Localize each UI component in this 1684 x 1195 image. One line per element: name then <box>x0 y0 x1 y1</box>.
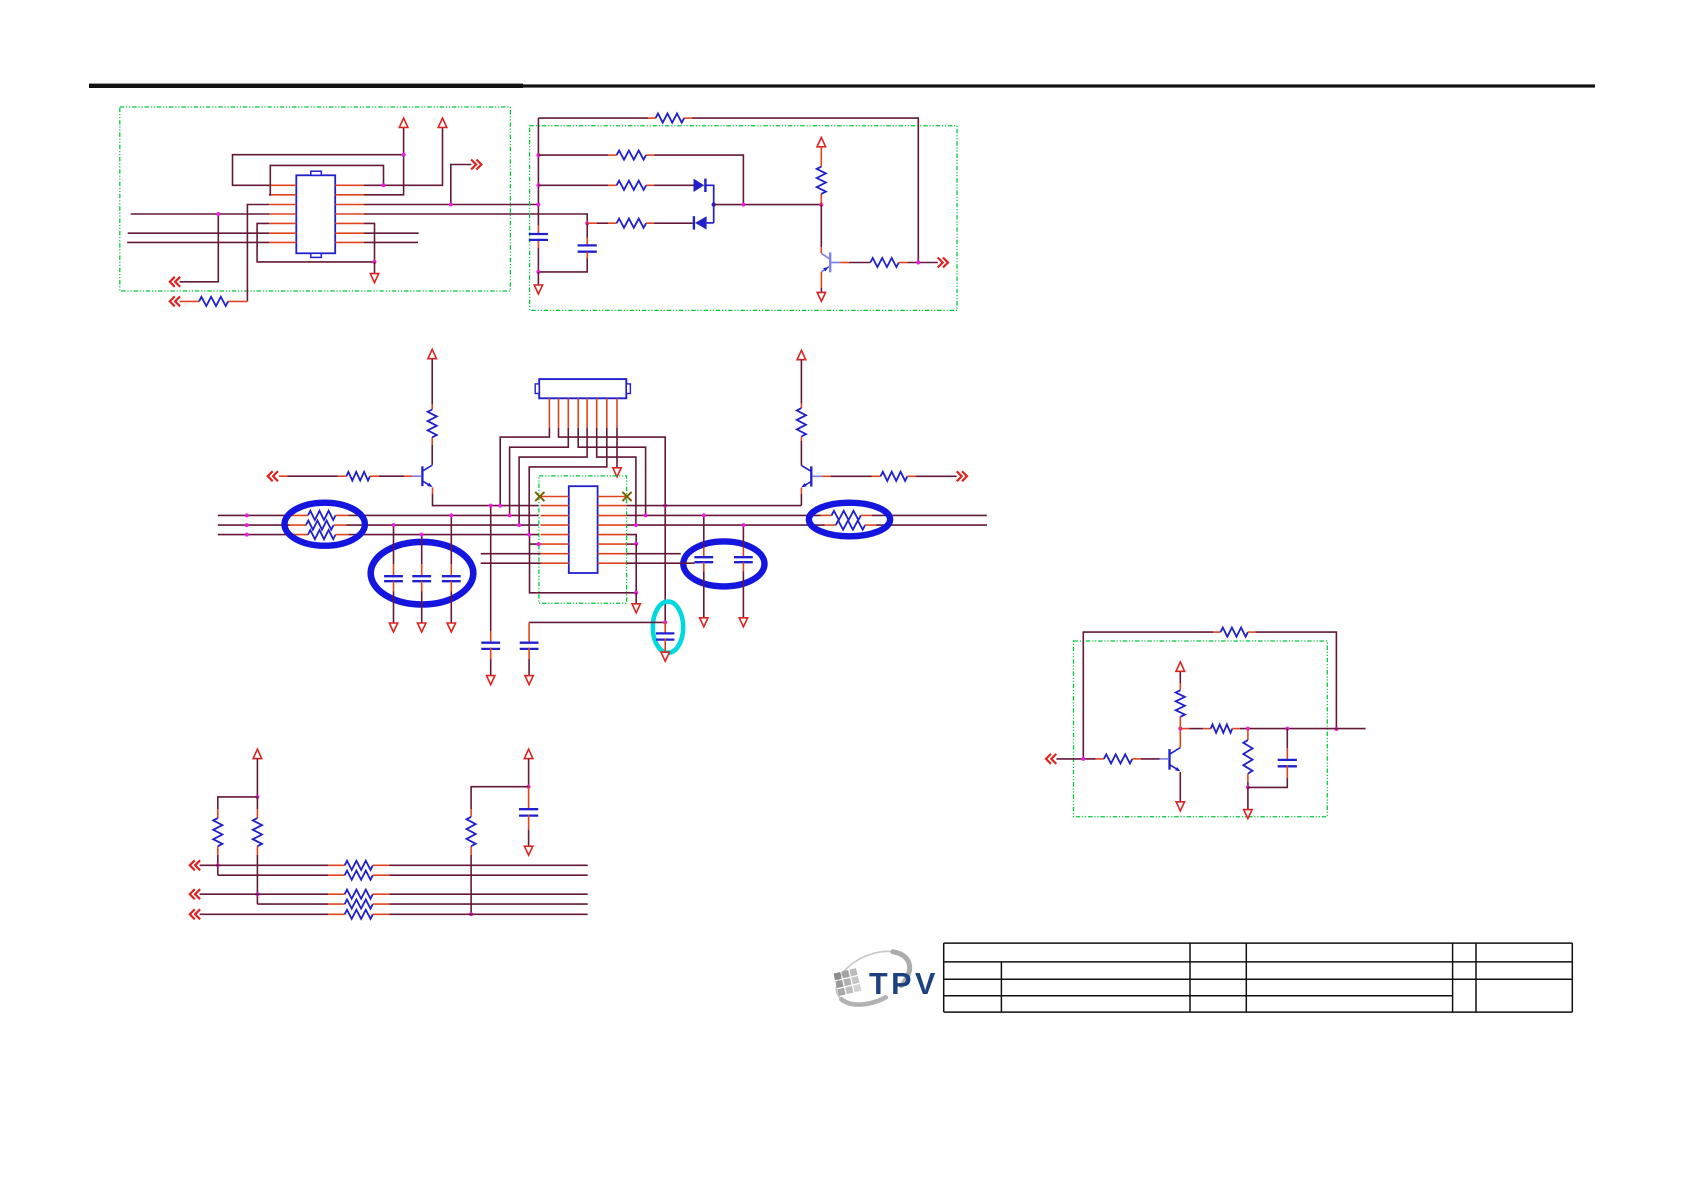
wire VCC7 stem <box>528 759 530 787</box>
resistor R20 <box>345 890 373 899</box>
capacitor C1 leads <box>537 226 539 234</box>
power arrow VCC6 <box>253 749 262 758</box>
wire row7 right stub <box>364 241 418 243</box>
junction pullups <box>255 795 259 799</box>
wire line L5 <box>200 913 328 915</box>
wire line L3 <box>200 893 328 895</box>
resistor R13 <box>832 511 861 520</box>
wire VCC6 stem <box>256 759 258 797</box>
junction output-R27 <box>1246 727 1250 731</box>
capacitor C1 <box>529 233 548 235</box>
resistor R2 leads <box>228 300 247 302</box>
wire branch to R17 <box>471 787 528 809</box>
wire row6 right stub <box>364 232 419 234</box>
resistor R2 <box>199 297 228 306</box>
ground C2 <box>389 623 397 632</box>
wire row5 bottom loop <box>257 223 374 262</box>
junction bus2-capA <box>392 523 396 527</box>
IC U2 <box>569 486 598 573</box>
wire line L4 <box>257 903 328 905</box>
ground C7 <box>661 652 669 661</box>
resistor R24 <box>1104 754 1132 763</box>
output port chevron OUT1 <box>471 160 481 170</box>
IC U2 left pins <box>541 497 569 564</box>
resistor R14 <box>836 521 865 530</box>
resistor R16 leads <box>256 809 258 818</box>
wire D1 cathode link <box>707 185 714 223</box>
ground C8 <box>700 618 708 627</box>
wire U2 row6 left bend <box>530 535 637 593</box>
resistor R22 <box>345 910 373 919</box>
capacitor C3 <box>412 575 431 577</box>
wire feedback right <box>692 118 918 263</box>
input port chevron IN-Q2 <box>268 471 278 481</box>
wire output row <box>1180 728 1189 730</box>
junction feedback-base <box>916 261 920 265</box>
junction rail-row3 <box>536 203 540 207</box>
IC U2 right pins <box>598 497 627 564</box>
wire branch to R15 <box>218 797 258 809</box>
wire cap 4 to ground <box>450 581 452 591</box>
wire row3 riser to output port <box>451 165 472 205</box>
wire row7 left stub <box>127 241 269 243</box>
resistor R25 leads <box>1179 717 1181 729</box>
junction bus3-capB <box>420 533 424 537</box>
wire U2 row8 right stub <box>627 562 695 564</box>
junction gnd line <box>634 591 638 595</box>
wire J1 pin2 fanout <box>559 428 666 623</box>
junction pin7-bus <box>527 533 531 537</box>
capacitor C10 leads <box>528 787 530 810</box>
wire U2 row8 left stub <box>481 562 541 564</box>
wire bus line 3 <box>218 534 292 536</box>
junction row4-drop <box>216 212 220 216</box>
wire J1 pin5 fanout <box>519 428 587 525</box>
junction center-Rpullup <box>819 203 823 207</box>
transistor Q4 <box>1170 748 1181 772</box>
title block table <box>944 943 1573 1012</box>
ground C3 <box>418 623 426 632</box>
wire R16 to L3/L4 <box>256 855 258 904</box>
wire diode center line <box>714 204 822 206</box>
resistor R3 leads <box>648 117 656 119</box>
junction rail-row2 <box>536 183 540 187</box>
ground C4 <box>447 623 455 632</box>
resistor R23 <box>1221 628 1248 637</box>
wire bottom link line <box>529 621 665 623</box>
resistor R3 <box>656 114 685 123</box>
wire Q4 collector <box>1179 729 1181 748</box>
resistor R16 <box>253 818 262 846</box>
wire row3-left drop to resistor <box>247 205 269 302</box>
dashed block outline (right section) <box>1074 641 1328 817</box>
wire U2 row6 right <box>627 543 637 545</box>
capacitor C2 <box>578 244 597 246</box>
junction VCC7 <box>527 785 531 789</box>
connector J1 <box>535 379 630 398</box>
diode D1 <box>694 179 706 192</box>
junction R15-L1 <box>216 863 220 867</box>
resistor R25 <box>1176 690 1185 717</box>
resistor R17 leads <box>470 809 472 817</box>
wire J1 pin6 fanout <box>597 428 636 525</box>
wire Q1 emitter to ground <box>820 272 822 288</box>
wire row505 right <box>627 505 802 507</box>
highlight ellipse A <box>285 503 365 546</box>
junction pin1-bus <box>498 504 502 508</box>
resistor R11 leads <box>800 404 802 408</box>
junction pin5-bus <box>517 523 521 527</box>
highlight ellipse C <box>809 503 890 537</box>
capacitor C4 <box>442 575 461 577</box>
wire VCC6 to R16 <box>256 797 258 809</box>
resistor R5 leads <box>608 184 617 186</box>
resistor R7 leads <box>820 147 822 167</box>
capacitor C5 leads <box>490 631 492 643</box>
junction row5-gnd <box>373 260 377 264</box>
wire cap 2 to ground <box>393 581 395 591</box>
wire row4 right segment <box>364 214 587 223</box>
power arrow VCC2 <box>438 118 447 127</box>
junction input-feedback <box>1081 757 1085 761</box>
junction row3-riser <box>449 203 453 207</box>
resistor R6 leads <box>608 222 617 224</box>
wire R17 to L5 <box>470 855 472 914</box>
ground C10 <box>524 846 532 855</box>
wire to Q4 base <box>1141 758 1160 760</box>
resistor R5 <box>617 181 647 190</box>
wire row4 long line <box>131 213 269 215</box>
junction bus3 left <box>245 533 249 537</box>
wire line L1 <box>200 864 328 866</box>
input port chevron INL3 <box>190 889 200 899</box>
IC U1 right pins <box>335 185 364 242</box>
wire bus line 1 <box>218 514 292 516</box>
wire J1 pin8 stem <box>616 428 618 468</box>
wire rail below C1 <box>537 248 539 272</box>
resistor R18 <box>345 861 373 870</box>
wire C6 ground stem <box>528 659 530 676</box>
ground Q4 <box>1176 802 1184 811</box>
junction Q4 collector node <box>1178 727 1182 731</box>
top border rule <box>89 84 523 88</box>
junction center-r155 <box>741 203 745 207</box>
wire cap drop 2 <box>421 535 423 565</box>
wire Q4 emitter stem <box>1179 772 1181 802</box>
wire C11 feed <box>1286 729 1288 748</box>
resistor R11 <box>797 408 806 436</box>
resistor R26 <box>1211 724 1233 732</box>
power arrow VCC7 <box>524 749 533 758</box>
wire C10 gnd stem <box>528 830 530 847</box>
output port chevron OUT3 <box>957 471 967 481</box>
resistor R15 <box>213 818 222 846</box>
wire cap drop 3 <box>450 515 452 564</box>
wire Q1 collector <box>820 205 822 248</box>
wire ellipseD cap2 drop <box>742 525 744 548</box>
wire row4 drop to input port <box>180 214 219 282</box>
highlight ellipse D <box>683 541 764 586</box>
junction bus2-capH <box>741 523 745 527</box>
junction row6-left <box>537 542 541 546</box>
wire feedback loop right <box>1255 632 1336 729</box>
resistor R4 leads <box>608 154 617 156</box>
junction bus2 left <box>245 523 249 527</box>
junction R16-L3 <box>255 892 259 896</box>
wire C11 bottom link <box>1248 778 1287 787</box>
power arrow VCC4 <box>428 349 437 358</box>
junction row505-cap <box>489 504 493 508</box>
wire C8 ground stem <box>703 572 705 619</box>
resistor R17 <box>467 817 476 846</box>
wire J1 pin4 fanout <box>578 428 645 516</box>
ground C9 <box>739 618 747 627</box>
wire input line <box>1056 758 1095 760</box>
wire gnd stem R27 <box>1247 787 1249 809</box>
wire Q3 emitter down <box>800 488 802 494</box>
wire U2 row5 right bend <box>627 535 637 544</box>
junction row6-right <box>634 542 638 546</box>
highlight ellipse E cyan <box>653 602 683 653</box>
wire U1 pin15 to power <box>364 127 404 195</box>
wire row3 to right block <box>364 204 539 206</box>
transistor Q3 <box>801 466 822 488</box>
wire cap 3 to ground <box>421 581 423 591</box>
power arrow VCC3 <box>817 137 826 146</box>
capacitor C5 <box>481 642 500 644</box>
wire D2 anode link <box>707 222 714 224</box>
wire feedback loop top <box>1083 632 1213 759</box>
junction output-C11 <box>1285 727 1289 731</box>
wire R27 bottom <box>1247 782 1249 787</box>
ground J1 pin8 <box>613 468 621 477</box>
ground C5 <box>487 676 495 685</box>
svg-text:TPV: TPV <box>869 967 939 1001</box>
resistor R19 <box>345 871 373 880</box>
resistor R27 <box>1243 740 1252 774</box>
wire left rail <box>537 118 539 226</box>
resistor R8 <box>870 258 899 267</box>
input port chevron IN3 <box>1046 754 1056 764</box>
junction pin4-bus <box>644 513 648 517</box>
capacitor C6 <box>520 642 539 644</box>
wire gnd stem rail <box>537 272 539 285</box>
wire Q1 base line to output <box>840 262 849 264</box>
wire C6 feed <box>528 622 530 642</box>
no-connect X right <box>622 492 631 501</box>
wire R15 to L1 <box>217 855 219 875</box>
junction R17-L5 <box>469 912 473 916</box>
wire U1 pin16 to power <box>364 127 443 185</box>
wire to D1 anode <box>654 184 694 186</box>
wire bus line 2 <box>218 524 290 526</box>
wire row 155 with resistor to corner <box>538 154 608 156</box>
wire ellipseD cap1 drop <box>703 515 705 547</box>
resistor R21 <box>345 900 373 909</box>
capacitor C7 leads <box>664 622 666 633</box>
junction rail-row1 <box>536 153 540 157</box>
wire VCC8 stem <box>1179 671 1181 683</box>
IC U1 left pins <box>269 185 296 242</box>
resistor R27 leads <box>1247 729 1249 740</box>
ground rail <box>534 285 542 294</box>
capacitor C2 <box>384 575 403 577</box>
power arrow VCC1 <box>399 118 408 127</box>
ground Q1 <box>817 292 825 301</box>
wire J1 pin7 fanout <box>529 428 607 535</box>
junction cyan cap <box>663 620 667 624</box>
junction R27-C11 link <box>1246 785 1250 789</box>
wire Q2 emitter down <box>432 487 434 494</box>
wire cap drop 1 <box>393 525 395 564</box>
junction bus1-capG <box>702 513 706 517</box>
wire gnd stem U2 <box>635 593 637 604</box>
wire VCC5 stem <box>800 360 802 404</box>
wire J1 pin1 fanout <box>500 428 549 506</box>
connector J1 pins <box>549 398 617 427</box>
highlight ellipse B <box>371 542 474 605</box>
wire bus line 2 right <box>627 524 825 526</box>
input port chevron INL5 <box>190 909 200 919</box>
junction pin6-bus <box>634 523 638 527</box>
resistor R10 <box>346 472 370 481</box>
resistor R9 leads <box>431 404 433 410</box>
wire gnd drop right <box>635 544 637 593</box>
no-connect X left <box>535 492 544 501</box>
wire U2 row7 right stub <box>627 553 681 555</box>
resistor R12 <box>881 472 908 481</box>
wire U1 pin1 loop to top <box>233 155 404 186</box>
wire gnd stem U1 <box>374 262 376 274</box>
junction row4-capline <box>585 221 589 225</box>
wire row6 left stub <box>128 232 269 234</box>
wire R11 to Q3 collector <box>800 441 802 466</box>
junction rail-bottom <box>536 270 540 274</box>
transistor Q2 <box>412 465 432 487</box>
wire line L2 <box>218 874 328 876</box>
ground R27 <box>1244 810 1252 819</box>
capacitor C8 <box>694 556 713 558</box>
wire U1 pin2 inner loop <box>269 165 384 194</box>
capacitor C7 (cyan highlighted) <box>656 632 674 634</box>
input port chevron IN2 <box>170 296 180 306</box>
ground U2 right <box>632 604 640 613</box>
wire VCC4 stem <box>431 359 433 404</box>
junction diodes mid <box>712 202 716 206</box>
ground U1 <box>370 274 378 283</box>
wire feedback top <box>538 117 648 119</box>
wire cap drop row505 <box>490 506 492 631</box>
wire row 223 resistor to D2 <box>587 222 597 224</box>
ground C6 <box>525 676 533 685</box>
wire R9 to Q2 collector <box>431 445 433 465</box>
transistor Q1 <box>821 252 840 272</box>
junction bus1-capC <box>449 513 453 517</box>
output port chevron OUT2 <box>938 258 948 268</box>
wire to D2 cathode <box>654 222 693 224</box>
wire C9 ground stem <box>742 572 744 619</box>
dashed block outline (IC section) <box>539 476 627 603</box>
junction feedback-output <box>1334 727 1338 731</box>
wire J1 pin3 fanout <box>510 428 569 516</box>
capacitor C10 <box>519 808 538 810</box>
resistor R7 pull-up <box>817 167 826 194</box>
wire Q2 base network <box>279 475 288 477</box>
wire C2 bottom link <box>538 259 587 272</box>
TPV logo <box>834 951 939 1004</box>
capacitor C11 <box>1278 759 1297 761</box>
wire Q3 base network <box>822 475 830 477</box>
junction bus1 left <box>245 513 249 517</box>
resistor R9 <box>428 410 437 438</box>
junction wireB-row1 <box>382 183 386 187</box>
junction wireA-arrow1 <box>402 153 406 157</box>
resistor R15 leads <box>217 809 219 818</box>
IC U1 <box>296 171 335 257</box>
power arrow VCC5 <box>797 350 806 359</box>
wire row 185 to diode <box>538 184 608 186</box>
power arrow VCC8 <box>1176 662 1185 671</box>
wire bus line 1 right <box>627 514 821 516</box>
wire U2 row7 left stub <box>481 553 541 555</box>
input port chevron IN1 <box>170 277 180 287</box>
dashed block outline (top-middle section) <box>530 126 957 311</box>
junction pin3-bus <box>508 513 512 517</box>
resistor R6 <box>617 219 647 228</box>
wire C5 ground stem <box>490 659 492 676</box>
wire to OUT2 <box>908 262 938 264</box>
dashed block outline (top-left section) <box>120 107 511 291</box>
wire down to C2 <box>586 223 588 237</box>
resistor R4 <box>617 151 647 160</box>
junction pin2-bus <box>663 504 667 508</box>
wire row 155 corner down <box>655 155 744 205</box>
capacitor C9 <box>734 556 753 558</box>
diode D2 <box>694 216 707 229</box>
input port chevron INL1 <box>190 860 200 870</box>
